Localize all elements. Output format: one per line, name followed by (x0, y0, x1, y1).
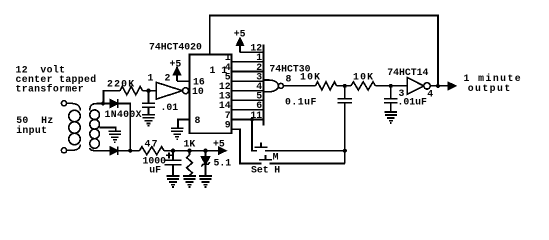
svg-text:Set: Set (251, 165, 269, 176)
svg-text:74HCT14: 74HCT14 (387, 67, 428, 78)
ground C4 (384, 112, 397, 123)
svg-text:5.1: 5.1 (214, 158, 232, 169)
wire center tap (99, 128, 116, 132)
label 74HCT4020 (149, 42, 202, 53)
label U3 pin 4 (427, 88, 433, 99)
wire U1 pin11 feedback top rail (210, 16, 438, 86)
wire C3 down to switches (344, 103, 346, 164)
label 0.1uF (285, 96, 317, 107)
svg-text:0.1uF: 0.1uF (285, 96, 317, 107)
label 5.1 (214, 158, 232, 169)
ground C2 (167, 176, 180, 187)
transformer T1 secondary winding (90, 104, 100, 151)
label 1 minute output (464, 73, 523, 94)
capacitor C4 .01uF plates (384, 99, 398, 103)
capacitor C1 .01 lead (148, 91, 150, 104)
node inverter input (146, 89, 150, 93)
diode D3 zener 5.1 lead (205, 151, 207, 157)
svg-text:74HCT4020: 74HCT4020 (149, 42, 202, 53)
svg-text:uF: uF (149, 165, 161, 176)
node zener (203, 149, 207, 153)
diode D2 1N400X (110, 146, 118, 155)
label pin 1 (148, 73, 154, 84)
node set M junction (250, 117, 254, 121)
wire node to 220K (104, 91, 121, 104)
label U3 pin 3 (399, 88, 405, 99)
label U1 pin 16 (193, 76, 205, 87)
diode D3 lower lead (205, 164, 207, 176)
node U3 input (389, 84, 393, 88)
label U2 pin 8 (286, 74, 292, 85)
svg-text:4: 4 (427, 88, 433, 99)
label 1K (184, 138, 196, 149)
label pin 2 (165, 73, 171, 84)
resistor R4 10K (316, 82, 337, 90)
svg-text:1N400X: 1N400X (105, 109, 142, 120)
svg-text:10K: 10K (353, 71, 374, 82)
capacitor C2 lower lead (172, 165, 174, 176)
wire to switch M (252, 120, 257, 151)
ground U1 pin 8 (171, 128, 184, 139)
resistor R1 220K (120, 87, 143, 95)
node rectifier output (128, 149, 132, 153)
label 1000 uF (143, 155, 167, 175)
transformer T1 primary bottom terminal (61, 148, 66, 153)
wire switch Set H to C3 line (270, 163, 345, 165)
power +5 to U2 pin 12 (234, 28, 264, 52)
label 47 (145, 138, 159, 149)
wire U1 pin 8 to ground (178, 120, 190, 129)
label 74HCT14 (387, 67, 428, 78)
label U1 pin 11 (210, 65, 228, 76)
wire switch M to C3 line (265, 150, 345, 152)
label 74HCT30 (269, 63, 310, 74)
resistor R3 1K (187, 151, 193, 176)
ground D3 (199, 176, 212, 187)
node U3 output feedback (436, 84, 440, 88)
svg-text:220K: 220K (107, 78, 135, 89)
label U2 input pins 12 1 2 3 4 5 6 11 (250, 43, 262, 121)
svg-text:3: 3 (399, 88, 405, 99)
wire U1 outputs to U2 inputs (232, 62, 264, 120)
label U1 pin 8 (195, 115, 201, 126)
ground R3 (183, 176, 196, 187)
svg-text:transformer: transformer (16, 84, 85, 95)
wire supply rail (164, 150, 219, 152)
svg-text:input: input (16, 125, 47, 136)
svg-text:10: 10 (192, 86, 204, 97)
svg-text:.01: .01 (161, 102, 179, 113)
label 10K second (353, 71, 374, 82)
output arrow (448, 83, 455, 90)
transformer T1 primary winding (67, 103, 81, 150)
label 10K first (300, 71, 321, 82)
label Set H (251, 165, 280, 176)
wire R5 to U3 (376, 85, 408, 87)
wire secondary bottom (98, 150, 111, 152)
node rectifier top (101, 101, 105, 105)
wire U1 pin 9 to switch Set H (232, 129, 262, 163)
resistor R2 47 (140, 147, 165, 155)
node C2 (171, 149, 175, 153)
capacitor C2 1000uF plates (165, 160, 182, 164)
wire U2 output (283, 85, 315, 87)
capacitor C3 0.1uF lead (344, 86, 346, 99)
label U1 pin 10 (192, 86, 204, 97)
svg-text:H: H (274, 165, 280, 176)
svg-text:1K: 1K (184, 138, 196, 149)
svg-text:M: M (273, 151, 279, 162)
switch M pushbutton (255, 142, 268, 147)
wire U3 output (430, 85, 448, 87)
wire 220K to inverter (143, 90, 157, 92)
label 50 Hz input (16, 115, 53, 136)
capacitor C1 lower lead (148, 107, 150, 115)
svg-text:8: 8 (195, 115, 201, 126)
capacitor C1 .01 plates (142, 103, 155, 107)
resistor R5 10K (351, 82, 376, 90)
wire R4 to R5 (337, 85, 351, 87)
svg-text:8: 8 (286, 74, 292, 85)
svg-text:1: 1 (148, 73, 154, 84)
label 1N400X (105, 109, 142, 120)
op-amp U3a inverter 74HCT14 pins 1-2 (156, 82, 188, 99)
capacitor C3 0.1uF plates (338, 99, 353, 103)
svg-text:9: 9 (225, 119, 231, 130)
diode D1 1N400X (110, 99, 118, 108)
switch Set H pushbutton (259, 155, 272, 160)
capacitor C2 1000uF lead (172, 151, 174, 161)
wire D1 cathode to rail (118, 104, 130, 151)
IC U1 74HCT4020 box (190, 55, 232, 134)
capacitor C4 .01uF lead (390, 86, 392, 99)
label .01uF (398, 96, 428, 107)
ground center tap (108, 131, 121, 142)
IC U2 74HCT30 gate body (264, 80, 284, 92)
node R4 R5 junction (343, 84, 347, 88)
ground C1 (142, 115, 155, 126)
capacitor C4 lower lead (390, 103, 392, 112)
svg-text:2: 2 (165, 73, 171, 84)
label 12 volt center tapped transformer (16, 64, 97, 94)
wire secondary top (98, 103, 111, 105)
svg-text:output: output (468, 83, 512, 94)
capacitor C2 polarity plus (166, 152, 172, 158)
svg-text:+5: +5 (170, 59, 182, 70)
IC U2 74HCT30 input bar (263, 45, 265, 126)
op-amp U3b inverter 74HCT14 pins 3-4 (407, 78, 430, 95)
label U1 output pins 1 4 5 12 13 14 7 9 (219, 52, 231, 130)
power +5 rail arrow (213, 138, 226, 154)
transformer T1 primary top terminal (61, 101, 66, 106)
svg-text:47: 47 (145, 138, 159, 149)
wire D2 to R2 (118, 150, 140, 152)
node switch M to C3 (343, 149, 347, 153)
label .01 (161, 102, 179, 113)
node R3 (187, 149, 191, 153)
label M (273, 151, 279, 162)
diode D3 zener 5.1 body (201, 157, 209, 167)
wire inverter out to U1 pin 10 (188, 90, 191, 92)
label 220K (107, 78, 135, 89)
power +5 to U1 pin 16 (170, 59, 190, 82)
svg-text:10K: 10K (300, 71, 321, 82)
